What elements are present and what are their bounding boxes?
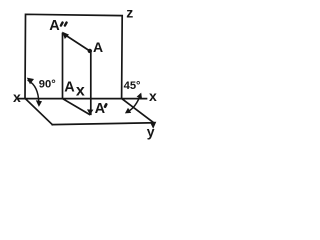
V plane rectangle (frontal projection plane) [25, 14, 122, 98]
wire A'' to Ax (vertical) [62, 34, 64, 99]
y-axis arrowhead [150, 122, 156, 129]
45 arc upper arrowhead [137, 93, 142, 99]
wire Ax to A' [63, 99, 90, 115]
svg-text:A: A [49, 18, 60, 34]
label A' prime [105, 104, 106, 106]
wire A to A' (vertical projecting ray) [90, 51, 92, 114]
svg-text:45°: 45° [124, 80, 141, 92]
node A dot [88, 49, 92, 53]
wire A to A'' (depth projecting ray) [63, 34, 90, 51]
svg-text:x: x [76, 83, 85, 100]
x-axis [19, 98, 147, 100]
svg-text:x: x [149, 88, 157, 104]
svg-text:x: x [13, 89, 21, 105]
svg-text:A: A [95, 101, 106, 117]
svg-text:90°: 90° [39, 78, 56, 90]
svg-text:z: z [126, 5, 133, 21]
svg-text:A: A [64, 79, 75, 95]
45 degree arc [128, 95, 141, 112]
y-axis [122, 99, 154, 123]
label A'' double prime [61, 23, 67, 26]
H plane left oblique edge [25, 99, 52, 125]
90 degree arc [28, 81, 39, 104]
90 arc upper arrowhead [27, 78, 34, 85]
H plane front edge [52, 123, 154, 125]
arrowhead at A'' end of ray [62, 32, 69, 39]
svg-text:A: A [93, 39, 103, 55]
arrowhead at A' end of vertical ray [87, 109, 93, 115]
45 arc lower arrowhead [125, 108, 131, 114]
svg-text:y: y [147, 124, 155, 140]
90 arc lower arrowhead [36, 100, 42, 107]
